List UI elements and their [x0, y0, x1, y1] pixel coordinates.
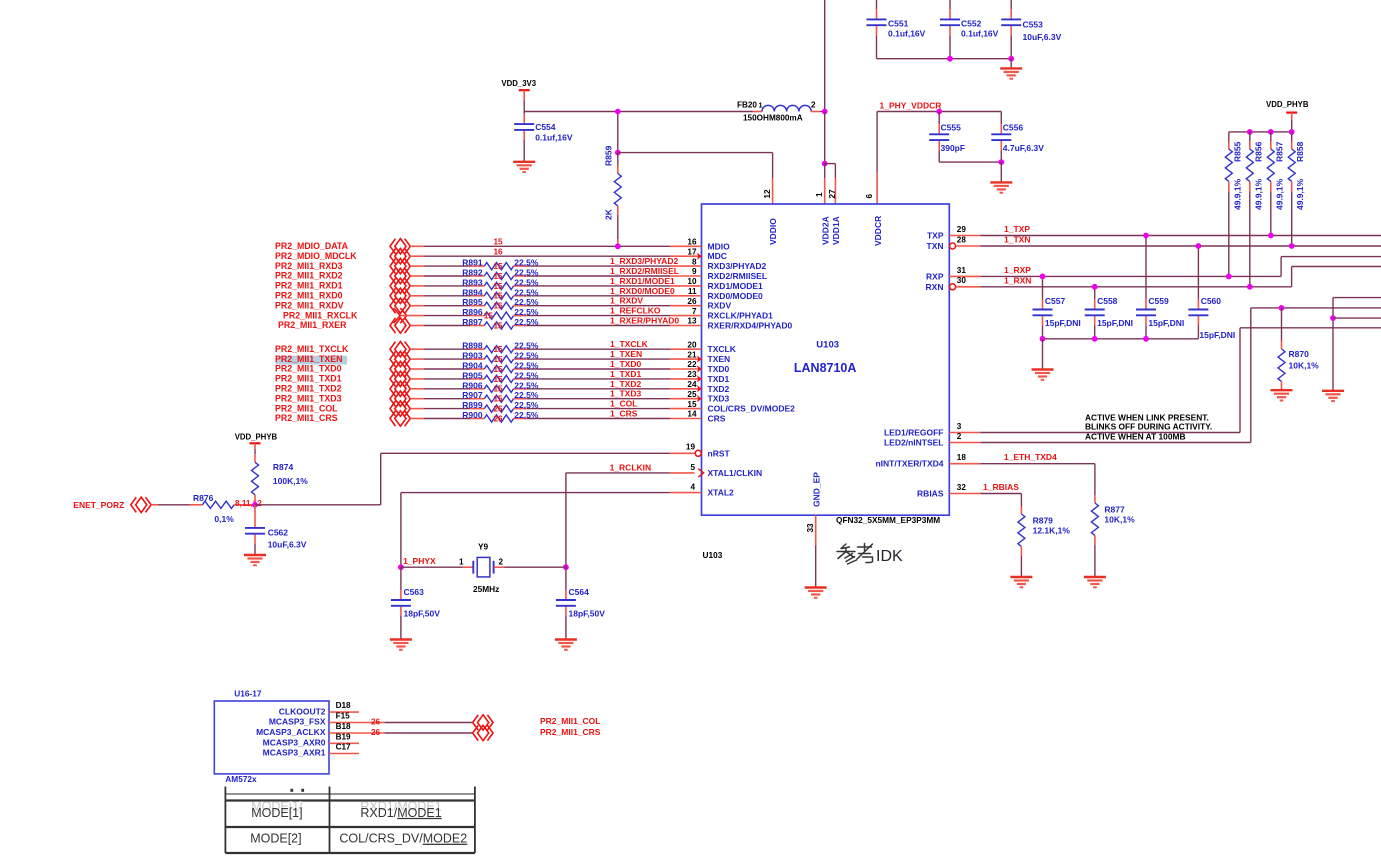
svg-text:1_RXP: 1_RXP [1004, 265, 1031, 275]
svg-text:49.9,1%: 49.9,1% [1274, 178, 1284, 210]
svg-text:U16-17: U16-17 [234, 689, 262, 699]
svg-text:LED2/nINTSEL: LED2/nINTSEL [884, 438, 944, 448]
resistor R906 22,5% [470, 388, 484, 390]
svg-text:RBIAS: RBIAS [917, 489, 944, 499]
svg-text:15: 15 [494, 238, 504, 247]
svg-text:VDDCR: VDDCR [873, 216, 883, 246]
svg-text:22,5%: 22,5% [514, 370, 539, 380]
wire PR2_MII1_RXD1 [410, 285, 424, 287]
capacitor C557 15pF DNI [1042, 276, 1044, 299]
svg-text:RXER/RXD4/PHYAD0: RXER/RXD4/PHYAD0 [708, 321, 793, 331]
svg-text:21: 21 [687, 350, 697, 359]
svg-text:AM572x: AM572x [225, 774, 257, 784]
svg-text:MODE[2]: MODE[2] [250, 832, 301, 846]
svg-text:1_TXEN: 1_TXEN [610, 349, 642, 359]
svg-text:R900: R900 [462, 410, 483, 420]
capacitor C554 [523, 112, 525, 115]
ground under GND_EP [805, 588, 827, 598]
resistor R892 22,5% [470, 275, 484, 277]
svg-text:C560: C560 [1201, 296, 1222, 306]
svg-text:PR2_MII1_COL: PR2_MII1_COL [275, 403, 338, 413]
svg-text:19: 19 [686, 442, 696, 451]
svg-text:0.1uf,16V: 0.1uf,16V [535, 133, 573, 143]
ground under C562 [254, 544, 256, 555]
svg-text:COL/CRS_DV/MODE2: COL/CRS_DV/MODE2 [708, 404, 796, 414]
svg-text:R897: R897 [462, 317, 483, 327]
svg-text:26: 26 [371, 728, 381, 737]
svg-text:PR2_MII1_TXD0: PR2_MII1_TXD0 [275, 364, 342, 374]
svg-text:32: 32 [957, 483, 967, 492]
svg-text:C556: C556 [1003, 123, 1024, 133]
svg-text:CLKOOUT2: CLKOOUT2 [279, 706, 326, 716]
svg-text:22,5%: 22,5% [514, 277, 539, 287]
svg-text:R855: R855 [1233, 141, 1243, 162]
svg-text:R891: R891 [462, 258, 483, 268]
svg-text:R899: R899 [462, 400, 483, 410]
svg-text:nRST: nRST [708, 448, 731, 458]
svg-text:1_TXD2: 1_TXD2 [610, 379, 641, 389]
svg-text:TXEN: TXEN [708, 354, 731, 364]
svg-text:1_TXP: 1_TXP [1004, 224, 1030, 234]
svg-text:PR2_MII1_CRS: PR2_MII1_CRS [540, 727, 601, 737]
svg-text:VDD_PHYB: VDD_PHYB [1266, 100, 1309, 109]
svg-text:RXD3/PHYAD2: RXD3/PHYAD2 [708, 261, 767, 271]
svg-text:C562: C562 [268, 527, 289, 537]
svg-text:C557: C557 [1045, 296, 1066, 306]
svg-text:R879: R879 [1033, 516, 1054, 526]
svg-text:15: 15 [494, 375, 504, 384]
op-amp U103 IC body LAN8710A [702, 204, 950, 515]
svg-text:2: 2 [499, 558, 504, 567]
svg-text:22,5%: 22,5% [514, 351, 539, 361]
svg-text:28: 28 [957, 235, 967, 244]
svg-text:15pF,DNI: 15pF,DNI [1045, 318, 1081, 328]
wire 1_ETH_TXD4 net pin 18 [949, 463, 980, 465]
svg-text:15: 15 [494, 302, 504, 311]
table MODE settings [225, 793, 475, 795]
svg-text:22,5%: 22,5% [514, 268, 539, 278]
svg-text:1_ETH_TXD4: 1_ETH_TXD4 [1004, 452, 1057, 462]
svg-text:Y9: Y9 [478, 542, 489, 552]
junction dots on cap rail [947, 56, 953, 62]
svg-text:C564: C564 [569, 587, 590, 597]
svg-text:1_TXD0: 1_TXD0 [610, 359, 641, 369]
svg-text:R877: R877 [1104, 505, 1125, 515]
svg-text:1: 1 [759, 101, 763, 110]
svg-text:PR2_MII1_CRS: PR2_MII1_CRS [275, 413, 338, 423]
wire PR2_MII1_RXER [410, 325, 424, 327]
svg-text:MCASP3_AXR0: MCASP3_AXR0 [263, 738, 326, 748]
svg-text:26: 26 [494, 414, 504, 423]
svg-text:TXD3: TXD3 [708, 394, 730, 404]
svg-text:PR2_MDIO_MDCLK: PR2_MDIO_MDCLK [275, 251, 357, 261]
svg-text:22,5%: 22,5% [514, 390, 539, 400]
svg-text:C552: C552 [961, 18, 982, 28]
svg-text:390pF: 390pF [941, 143, 966, 153]
svg-text:nINT/TXER/TXD4: nINT/TXER/TXD4 [875, 459, 943, 469]
wire PR2_MII1_TXD2 [410, 388, 424, 390]
svg-text:24: 24 [687, 380, 697, 389]
wire PR2_MII1_RXD0 [410, 295, 424, 297]
wire VDD_PHYB rail [1229, 131, 1292, 133]
wire PR2_MII1_RXD2 [410, 275, 424, 277]
svg-text:13: 13 [687, 317, 697, 326]
svg-text:R905: R905 [462, 370, 483, 380]
svg-text:15: 15 [494, 365, 504, 374]
svg-text:R874: R874 [273, 462, 294, 472]
ground under C554 [523, 140, 525, 162]
wire 1_PHY_VDDCR rail [877, 111, 1001, 113]
capacitor C552 [949, 9, 951, 19]
svg-text:MCASP3_AXR1: MCASP3_AXR1 [263, 748, 326, 758]
svg-text:VDDIO: VDDIO [768, 218, 778, 245]
svg-text:22,5%: 22,5% [514, 400, 539, 410]
svg-text:R859: R859 [603, 145, 613, 166]
wire RXN net pin 30 [950, 284, 956, 290]
svg-text:10K,1%: 10K,1% [1289, 361, 1320, 371]
svg-text:22,5%: 22,5% [514, 410, 539, 420]
svg-text:F15: F15 [336, 712, 351, 721]
svg-text:C559: C559 [1148, 296, 1169, 306]
svg-text:R896: R896 [462, 307, 483, 317]
svg-text:15: 15 [494, 395, 504, 404]
capacitor C553 [1010, 9, 1012, 19]
svg-text:PR2_MII1_RXDV: PR2_MII1_RXDV [275, 300, 344, 310]
svg-text:RXD2/RMIISEL: RXD2/RMIISEL [708, 271, 768, 281]
svg-text:R906: R906 [462, 380, 483, 390]
ground under C564 [565, 616, 567, 640]
svg-text:30: 30 [957, 276, 967, 285]
svg-text:FB20: FB20 [737, 101, 757, 110]
svg-text:PR2_MII1_TXEN: PR2_MII1_TXEN [275, 354, 342, 364]
svg-text:8: 8 [692, 257, 697, 266]
svg-text:22,5%: 22,5% [514, 341, 539, 351]
svg-text:15: 15 [494, 385, 504, 394]
svg-text:15: 15 [494, 272, 504, 281]
resistor R877 10K 1% [1094, 495, 1096, 503]
svg-text:0,1%: 0,1% [214, 514, 234, 524]
svg-text:10uF,6.3V: 10uF,6.3V [1023, 32, 1062, 42]
svg-text:B19: B19 [336, 732, 351, 741]
svg-text:22,5%: 22,5% [514, 307, 539, 317]
svg-text:RXN: RXN [926, 282, 944, 292]
pin 1 stub VDD2A [824, 164, 826, 178]
svg-text:33: 33 [806, 523, 815, 533]
svg-text:15pF,DNI: 15pF,DNI [1097, 318, 1133, 328]
svg-text:1_PHY_VDDCR: 1_PHY_VDDCR [880, 101, 942, 111]
resistor R899 22,5% [470, 408, 484, 410]
resistor R857 49.9 1% [1270, 132, 1272, 141]
svg-text:15: 15 [484, 312, 494, 321]
capacitor C551 [876, 9, 878, 19]
svg-text:R857: R857 [1274, 141, 1284, 162]
ground net right [1333, 297, 1381, 299]
wire VDD_3V3 rail to FB20 [524, 111, 752, 113]
svg-text:2: 2 [957, 432, 962, 441]
junction dot R859 on MDIO wire [615, 243, 621, 249]
svg-text:R893: R893 [462, 277, 483, 287]
svg-text:R892: R892 [462, 268, 483, 278]
annotation kanji IDK [837, 544, 873, 565]
svg-text:R858: R858 [1295, 141, 1305, 162]
svg-text:18: 18 [957, 453, 967, 462]
svg-text:PR2_MDIO_DATA: PR2_MDIO_DATA [275, 241, 349, 251]
svg-text:14: 14 [687, 410, 697, 419]
svg-text:R870: R870 [1289, 349, 1310, 359]
svg-text:R898: R898 [462, 341, 483, 351]
svg-text:25: 25 [687, 390, 697, 399]
highlight on PR2_MII1_TXEN [276, 356, 348, 365]
svg-text:QFN32_5X5MM_EP3P3MM: QFN32_5X5MM_EP3P3MM [836, 515, 940, 525]
resistor R896 22,5% [470, 315, 484, 317]
svg-text:22,5%: 22,5% [514, 297, 539, 307]
svg-text:VDD1A: VDD1A [831, 216, 841, 245]
resistor R856 49.9 1% [1249, 132, 1251, 141]
svg-text:RXD1/MODE1: RXD1/MODE1 [708, 281, 764, 291]
resistor R895 22,5% [470, 305, 484, 307]
svg-text:26: 26 [371, 718, 381, 727]
svg-text:4.7uF,6.3V: 4.7uF,6.3V [1003, 143, 1044, 153]
svg-text:1_RXER/PHYAD0: 1_RXER/PHYAD0 [610, 316, 679, 326]
svg-text:9: 9 [692, 267, 697, 276]
svg-text:12.1K,1%: 12.1K,1% [1033, 526, 1071, 536]
ferrite bead FB20 [753, 111, 763, 113]
svg-text:1_RCLKIN: 1_RCLKIN [610, 463, 652, 473]
svg-text:C551: C551 [888, 18, 909, 28]
svg-text:15pF,DNI: 15pF,DNI [1148, 318, 1184, 328]
svg-text:49.9,1%: 49.9,1% [1254, 178, 1264, 210]
svg-text:C554: C554 [535, 122, 556, 132]
ground under C563 [400, 616, 402, 640]
svg-text:1: 1 [459, 558, 464, 567]
svg-text:0.1uf,16V: 0.1uf,16V [888, 28, 926, 38]
svg-text:PR2_MII1_RXD2: PR2_MII1_RXD2 [275, 271, 343, 281]
svg-text:18pF,50V: 18pF,50V [569, 609, 606, 619]
svg-text:U103: U103 [816, 340, 839, 351]
svg-text:10: 10 [687, 277, 697, 286]
svg-text:CRS: CRS [708, 414, 726, 424]
svg-text:15: 15 [494, 345, 504, 354]
wire cap DNI ground rail [1043, 338, 1199, 340]
svg-text:PR2_MII1_RXD3: PR2_MII1_RXD3 [275, 261, 343, 271]
pin 6 stub VDDCR [876, 112, 878, 173]
off-page connector PR2_MII1_COL [473, 715, 479, 730]
pin 33 stub GND_EP [815, 515, 817, 545]
svg-text:PR2_MII1_RXER: PR2_MII1_RXER [278, 320, 347, 330]
wire PR2_MDIO_MDCLK [410, 255, 424, 257]
svg-text:29: 29 [957, 225, 967, 234]
svg-text:15: 15 [687, 400, 697, 409]
svg-text:PR2_MII1_TXCLK: PR2_MII1_TXCLK [275, 344, 349, 354]
svg-text:18pF,50V: 18pF,50V [404, 609, 441, 619]
svg-text:22,5%: 22,5% [514, 258, 539, 268]
resistor R859 2K [617, 112, 619, 153]
svg-text:TXN: TXN [927, 241, 944, 251]
svg-text:17: 17 [687, 247, 697, 256]
svg-text:16: 16 [494, 247, 504, 256]
svg-text:1_RXDV: 1_RXDV [610, 296, 643, 306]
capacitor C562 [254, 505, 256, 518]
svg-text:1_RXD2/RMIISEL: 1_RXD2/RMIISEL [610, 266, 679, 276]
svg-text:15: 15 [494, 262, 504, 271]
svg-text:C563: C563 [404, 587, 425, 597]
wire LED1/REGOFF net pin 3 [949, 432, 980, 434]
resistor R879 12.1K 1% [1020, 506, 1022, 514]
capacitor C558 15pF DNI [1094, 287, 1096, 300]
svg-text:31: 31 [957, 266, 967, 275]
svg-text:1_TXD1: 1_TXD1 [610, 369, 641, 379]
power rail stubs from top sheet edge [876, 0, 878, 9]
ground under C557 rail [1042, 339, 1044, 370]
svg-text:1_TXCLK: 1_TXCLK [610, 339, 649, 349]
pin B19 MCASP3_AXR0 [329, 742, 359, 744]
capacitor C559 15pF DNI [1145, 236, 1147, 300]
svg-text:MCASP3_ACLKX: MCASP3_ACLKX [256, 727, 326, 737]
svg-text:R894: R894 [462, 287, 483, 297]
svg-text:2: 2 [811, 101, 816, 110]
capacitor C560 15pF DNI [1197, 246, 1199, 299]
resistor R900 22,5% [470, 418, 484, 420]
svg-text:R907: R907 [462, 390, 483, 400]
wire PR2_MII1_RXDV [410, 305, 424, 307]
svg-text:U103: U103 [703, 550, 723, 560]
svg-text:VDD_PHYB: VDD_PHYB [235, 433, 278, 442]
svg-text:1_RXN: 1_RXN [1004, 275, 1031, 285]
svg-text:RXP: RXP [926, 271, 944, 281]
svg-text:1_RXD0/MODE0: 1_RXD0/MODE0 [610, 286, 675, 296]
wire 1_RBIAS net pin 32 [949, 493, 980, 495]
wire PR2_MII1_CRS [410, 418, 424, 420]
junction node nRST [252, 502, 258, 508]
svg-text:1_COL: 1_COL [610, 399, 637, 409]
svg-text:R904: R904 [462, 361, 483, 371]
svg-text:C555: C555 [941, 123, 962, 133]
svg-text:PR2_MII1_TXD2: PR2_MII1_TXD2 [275, 384, 342, 394]
resistor R907 22,5% [470, 398, 484, 400]
svg-text:15: 15 [494, 292, 504, 301]
svg-text:15: 15 [494, 321, 504, 330]
svg-text:C553: C553 [1023, 19, 1044, 29]
svg-text:22,5%: 22,5% [514, 287, 539, 297]
svg-text:LAN8710A: LAN8710A [794, 361, 857, 375]
wire PR2_MII1_TXD1 [410, 378, 424, 380]
svg-text:C558: C558 [1097, 296, 1118, 306]
svg-text:TXP: TXP [927, 231, 944, 241]
svg-text:XTAL1/CLKIN: XTAL1/CLKIN [708, 468, 763, 478]
wire PR2_MII1_TXD0 [410, 368, 424, 370]
pin C17 MCASP3_AXR1 [329, 753, 359, 755]
svg-text:22,5%: 22,5% [514, 317, 539, 327]
svg-text:4: 4 [690, 483, 695, 492]
svg-text:1: 1 [815, 192, 824, 197]
wire XTAL1/CLKIN net 1_RCLKIN [566, 472, 670, 474]
wire PR2_MII1_TXD3 [410, 398, 424, 400]
capacitor C563 [400, 567, 402, 590]
wire PR2_MII1_COL [410, 408, 424, 410]
resistor R855 49.9 1% [1228, 132, 1230, 141]
wire R859 to VDDIO pin 12 [618, 152, 773, 154]
svg-text:GND_EP: GND_EP [811, 472, 821, 507]
svg-text:1_REFCLKO: 1_REFCLKO [610, 306, 661, 316]
resistor R858 49.9 1% [1291, 132, 1293, 141]
pin F15 MCASP3_FSX [329, 722, 359, 724]
svg-text:MDC: MDC [708, 251, 727, 261]
svg-text:150OHM800mA: 150OHM800mA [743, 114, 803, 123]
svg-text:6: 6 [865, 194, 874, 199]
svg-text:PR2_MII1_TXD1: PR2_MII1_TXD1 [275, 374, 342, 384]
wire PR2_MII1_RXCLK [400, 315, 424, 317]
wire VDD2A rail vertical [824, 0, 826, 112]
svg-text:1_PHYX: 1_PHYX [403, 556, 436, 566]
off-page connector ENET_PORZ [131, 497, 137, 512]
svg-text:TXD0: TXD0 [708, 364, 730, 374]
svg-text:1_TXD3: 1_TXD3 [610, 389, 641, 399]
off-page connector PR2_MII1_CRS [473, 725, 479, 740]
wire XTAL2 net [401, 492, 670, 494]
svg-text:10uF,6.3V: 10uF,6.3V [268, 539, 307, 549]
pin 27 stub VDD1A [834, 178, 836, 204]
resistor R898 22,5% [470, 348, 484, 350]
svg-text:TXCLK: TXCLK [708, 344, 737, 354]
svg-text:1_CRS: 1_CRS [610, 409, 638, 419]
svg-text:ACTIVE WHEN AT 100MB: ACTIVE WHEN AT 100MB [1085, 432, 1186, 442]
svg-text:MDIO: MDIO [708, 241, 731, 251]
svg-text:COL/CRS_DV/MODE2: COL/CRS_DV/MODE2 [339, 832, 467, 846]
svg-text:26: 26 [687, 297, 697, 306]
wire ENET_PORZ to R876 [151, 504, 158, 506]
svg-text:TXD2: TXD2 [708, 384, 730, 394]
svg-text:5: 5 [690, 463, 695, 472]
svg-text:16: 16 [687, 238, 697, 247]
svg-text:22,5%: 22,5% [514, 361, 539, 371]
svg-text:100K,1%: 100K,1% [273, 476, 308, 486]
svg-text:PR2_MII1_RXD0: PR2_MII1_RXD0 [275, 291, 343, 301]
capacitor C564 [565, 567, 567, 590]
resistor R903 22,5% [470, 358, 484, 360]
svg-text:LED1/REGOFF: LED1/REGOFF [884, 428, 944, 438]
svg-text:26: 26 [494, 405, 504, 414]
ground under C556 [1000, 162, 1002, 182]
resistor R891 22,5% [470, 265, 484, 267]
svg-text:PR2_MII1_RXCLK: PR2_MII1_RXCLK [283, 310, 358, 320]
svg-text:RXD0/MODE0: RXD0/MODE0 [708, 291, 764, 301]
svg-text:XTAL2: XTAL2 [708, 488, 735, 498]
pin B18 MCASP3_ACLKX [329, 732, 359, 734]
svg-text:15pF,DNI: 15pF,DNI [1199, 330, 1235, 340]
wire nRST net [255, 504, 381, 506]
svg-text:22: 22 [687, 360, 697, 369]
svg-text:10K,1%: 10K,1% [1104, 515, 1135, 525]
resistor R904 22,5% [470, 368, 484, 370]
wire PR2_MDIO_DATA [410, 245, 424, 247]
svg-text:1_RXD1/MODE1: 1_RXD1/MODE1 [610, 276, 675, 286]
resistor R893 22,5% [470, 285, 484, 287]
svg-text:PR2_MII1_TXD3: PR2_MII1_TXD3 [275, 393, 342, 403]
pin 12 stub VDDIO [772, 153, 774, 178]
svg-text:23: 23 [687, 370, 697, 379]
wire PR2_MII1_COL from F15 [359, 722, 385, 724]
wire LED2/nINTSEL net pin 2 [949, 442, 980, 444]
wire PR2_MII1_TXCLK [410, 348, 424, 350]
svg-text:25MHz: 25MHz [473, 584, 499, 594]
svg-text:22,5%: 22,5% [514, 380, 539, 390]
svg-text:R856: R856 [1254, 141, 1264, 162]
svg-text:R903: R903 [462, 351, 483, 361]
capacitor C556 [1000, 112, 1002, 125]
resistor R897 22,5% [470, 325, 484, 327]
svg-text:1_TXN: 1_TXN [1004, 235, 1030, 245]
wire PR2_MII1_CRS from B18 [359, 732, 385, 734]
